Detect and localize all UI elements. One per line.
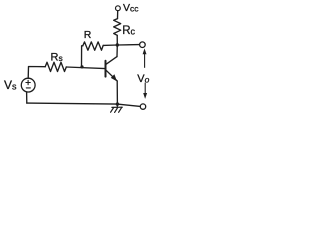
- terminal Vcc circle: [116, 6, 121, 11]
- resistor Rc: [114, 19, 121, 36]
- transistor Q1 collector diagonal: [106, 57, 117, 65]
- resistor R: [83, 42, 103, 50]
- wire Vs top lead to Rs: [28, 67, 45, 79]
- terminal output bottom circle: [140, 104, 145, 109]
- source Vs plus sign: [26, 80, 31, 88]
- svg-text:Vcc: Vcc: [123, 2, 139, 14]
- wire collector node to output terminal: [117, 44, 139, 46]
- wire vertical from R left end down to base node: [82, 46, 83, 67]
- wire R right end to collector node: [103, 44, 117, 46]
- node base junction dot: [80, 65, 83, 68]
- transistor Q1 emitter diagonal: [106, 70, 117, 81]
- wire Vcc lead: [117, 11, 119, 19]
- terminal output top circle: [140, 42, 146, 48]
- transistor Q1 emitter lead: [116, 81, 118, 104]
- node emitter-ground junction dot: [116, 102, 119, 105]
- wire Vs bottom lead: [26, 92, 28, 103]
- resistor Rs: [45, 62, 66, 71]
- transistor Q1 collector lead: [116, 45, 118, 57]
- source Vs minus sign: [26, 87, 30, 89]
- svg-text:Rc: Rc: [122, 25, 135, 37]
- transistor Q1 base bar: [105, 61, 107, 77]
- arrow Vo down: [143, 83, 147, 99]
- arrow Vo up: [143, 48, 147, 67]
- ground symbol: [111, 104, 123, 112]
- source Vs circle: [21, 78, 35, 92]
- svg-text:Vo: Vo: [137, 73, 149, 85]
- svg-text:Rs: Rs: [51, 52, 63, 64]
- svg-text:Vs: Vs: [4, 78, 17, 92]
- wire bottom rail: [27, 103, 141, 106]
- transistor Q1 emitter arrowhead: [111, 74, 117, 81]
- node collector junction dot: [116, 43, 119, 46]
- svg-text:R: R: [84, 29, 92, 41]
- wire Rc bottom lead to collector node: [116, 35, 118, 45]
- wire Rs to base (node B run): [66, 67, 105, 69]
